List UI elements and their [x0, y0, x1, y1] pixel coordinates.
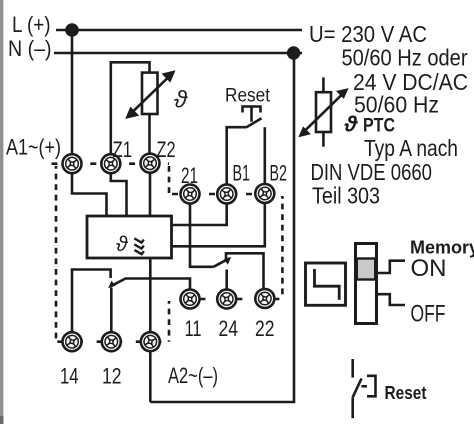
svg-text:Teil 303: Teil 303 [312, 182, 380, 208]
relay function box U1 [87, 216, 172, 258]
wire Z2 to box [149, 173, 152, 216]
dashed outline bottom row [56, 340, 169, 343]
svg-text:A2~(–): A2~(–) [168, 363, 218, 388]
wire box to B1 [172, 204, 227, 225]
memory latch icon [306, 263, 346, 305]
svg-text:50/60 Hz oder: 50/60 Hz oder [342, 45, 468, 71]
svg-text:A1~(+): A1~(+) [6, 135, 61, 160]
svg-text:21: 21 [181, 163, 198, 188]
svg-text:22: 22 [255, 316, 275, 341]
wire slider to ON [377, 261, 406, 273]
wire B2 up to reset contact [263, 127, 266, 184]
svg-text:ON: ON [411, 255, 447, 282]
dashed outline row 11-24-22 [169, 298, 282, 301]
node L junction [65, 23, 79, 37]
dashed outline left side [55, 166, 58, 342]
scanned page left edge gray bar [0, 0, 3, 424]
wire 12 up stub [110, 288, 113, 332]
svg-text:Reset: Reset [225, 86, 271, 107]
terminal 24 [216, 289, 237, 310]
terminal 14 [61, 331, 83, 353]
svg-text:DIN VDE 0660: DIN VDE 0660 [311, 159, 433, 185]
thermistor RT external (variable resistor) [130, 73, 171, 115]
memory slider switch [356, 244, 377, 324]
terminal B1 [216, 184, 237, 205]
dashed outline row 21-B1-B2 [169, 193, 282, 196]
terminal 11 [180, 289, 200, 309]
terminal 12 [101, 331, 122, 352]
wire 14 up inverted U [72, 270, 111, 332]
svg-text:Typ A nach: Typ A nach [364, 135, 458, 161]
svg-text:12: 12 [102, 364, 122, 389]
svg-text:ϑ: ϑ [174, 87, 188, 114]
svg-text:14: 14 [60, 364, 79, 389]
wire Z1 to box [111, 174, 127, 217]
wire N supply line [54, 52, 302, 55]
contact blade K1 11-12-14 [111, 279, 191, 290]
wire thermistor to Z2 [148, 114, 151, 154]
svg-text:B1: B1 [233, 161, 251, 186]
terminal A1 [62, 153, 83, 174]
wire A1 to box [72, 174, 107, 217]
svg-text:PTC: PTC [363, 116, 395, 137]
svg-text:N (–): N (–) [8, 36, 52, 61]
svg-text:L (+): L (+) [12, 12, 51, 37]
wire L drop to A1 [71, 30, 74, 154]
terminal Z2 [140, 153, 160, 173]
svg-text:ϑ: ϑ [116, 233, 129, 256]
wire A2 from box bottom [149, 258, 152, 332]
wire 21 down to contact [190, 204, 214, 267]
terminal 21 [180, 184, 201, 205]
wire 24 stub [225, 270, 228, 290]
wire Z1 loop to thermistor [111, 62, 150, 153]
wire slider to OFF [377, 294, 406, 305]
svg-text:50/60 Hz: 50/60 Hz [354, 92, 439, 118]
reset button symbol (bottom right) [353, 359, 376, 418]
wire 22 up branch [226, 253, 264, 288]
svg-text:OFF: OFF [411, 301, 446, 328]
terminal Z1 [101, 154, 121, 174]
wire box to B2 [172, 204, 265, 246]
svg-text:B2: B2 [270, 161, 288, 186]
terminal 22 [255, 288, 276, 309]
dashed outline left of 11 down [168, 301, 171, 342]
terminal B2 [254, 183, 275, 204]
wire L supply line [56, 29, 302, 32]
svg-text:Z1: Z1 [113, 137, 133, 162]
dashed outline top row [52, 162, 170, 165]
box label rotated >= [134, 238, 144, 254]
svg-text:Reset: Reset [385, 383, 427, 403]
terminal A2 [139, 330, 162, 353]
svg-text:Z2: Z2 [157, 137, 176, 162]
svg-text:ϑ: ϑ [344, 112, 359, 137]
wire A2 below terminal to bottom [149, 352, 152, 403]
reset actuator bracket [243, 107, 261, 122]
svg-text:11: 11 [185, 316, 202, 341]
dashed outline right side [281, 196, 284, 299]
wire B1 up to reset contact [227, 127, 247, 184]
PTC legend symbol [302, 77, 345, 146]
svg-text:24: 24 [219, 316, 239, 341]
wire N right vertical [150, 53, 294, 402]
reset contact blade (top) [243, 107, 262, 128]
svg-text:U= 230 V AC: U= 230 V AC [309, 21, 427, 47]
contact blade K2 21-24-22 [214, 259, 229, 267]
node N junction [287, 46, 300, 59]
dashed outline right of Z2 down [168, 166, 171, 194]
